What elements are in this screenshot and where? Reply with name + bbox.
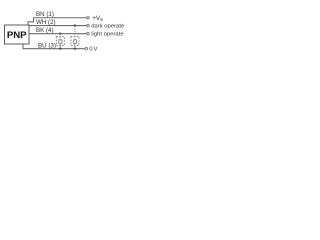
svg-text:light operate: light operate (91, 32, 124, 38)
svg-text:PNP: PNP (7, 30, 27, 41)
svg-text:dark operate: dark operate (91, 24, 125, 30)
svg-text:BK (4): BK (4) (36, 27, 54, 34)
svg-text:0V: 0V (89, 47, 97, 53)
svg-text:WH (2): WH (2) (36, 19, 56, 26)
svg-text:BN (1): BN (1) (36, 11, 54, 18)
svg-text:BU (3): BU (3) (38, 43, 56, 50)
